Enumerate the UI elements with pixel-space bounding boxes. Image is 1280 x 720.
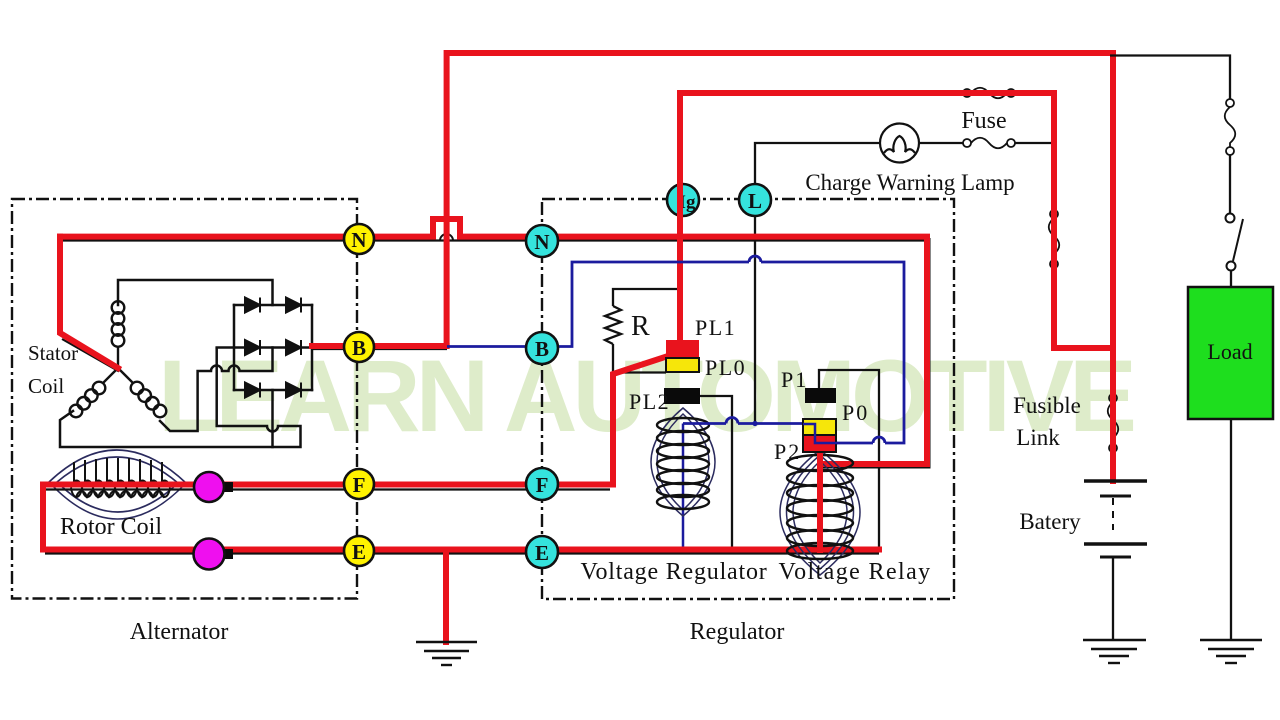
resistor R: [605, 306, 621, 344]
wire R resistor bottom to PL0: [613, 344, 666, 373]
svg-text:N: N: [534, 230, 549, 254]
diode D5: [245, 383, 260, 398]
wire stator phase3: [60, 349, 301, 448]
diode D1: [245, 298, 260, 313]
wire L terminal to lamp: [755, 143, 880, 185]
rotor comb ticks: [74, 458, 162, 482]
diode D2: [286, 298, 301, 313]
terminal F (alternator): [344, 469, 374, 499]
wire stator phase1 top: [118, 280, 273, 305]
regulator dashed box: [542, 199, 954, 599]
brush connector lower: [194, 539, 234, 570]
red ignition line: [680, 93, 1113, 348]
svg-text:PL0: PL0: [705, 355, 746, 380]
red into PL1: [677, 340, 683, 356]
fuse (lamp circuit): [963, 138, 1015, 149]
wire diode row1: [234, 304, 312, 307]
red relay vertical: [817, 452, 823, 550]
terminal E (regulator): [526, 536, 558, 568]
stator coil Y: [70, 301, 167, 417]
svg-text:B: B: [535, 337, 549, 361]
terminal Ig: [667, 184, 699, 216]
svg-text:PL2: PL2: [629, 389, 670, 414]
ground (load): [1200, 640, 1262, 663]
terminal N (regulator): [526, 225, 558, 257]
rotor loops: [71, 481, 170, 489]
diode D3: [245, 340, 260, 355]
svg-text:Load: Load: [1207, 339, 1252, 364]
wire top black to switch: [1110, 56, 1230, 100]
black wire under N line: [60, 239, 927, 241]
blue step inside P0/P2 block: [803, 424, 838, 443]
rectifier left rail: [233, 305, 236, 390]
blue wire L junction to P0 return: [761, 262, 904, 443]
svg-text:P0: P0: [842, 400, 869, 425]
red N line left leg + stator diagonal: [60, 237, 118, 368]
brush connector upper: [194, 472, 233, 502]
contact PL0: [666, 358, 699, 372]
terminal F (regulator): [526, 468, 558, 500]
svg-text:Voltage Relay: Voltage Relay: [778, 559, 931, 585]
blue regulator line: [683, 422, 726, 425]
load: [1188, 287, 1273, 419]
wire load to ground: [1230, 419, 1232, 640]
red top feed line: [447, 53, 1113, 481]
terminal B (regulator): [526, 332, 558, 364]
wire stator phase2: [160, 348, 273, 432]
charge warning lamp: [880, 124, 919, 163]
terminal N (alternator): [344, 224, 374, 254]
contact P0/P2 block: [803, 419, 836, 435]
blue hop over L wire: [749, 256, 761, 262]
black wire under relay feed: [820, 238, 930, 468]
svg-text:L: L: [748, 189, 762, 213]
black wire under E line: [45, 552, 879, 554]
svg-text:Rotor Coil: Rotor Coil: [60, 514, 162, 540]
junction dot L/blue: [752, 421, 757, 426]
blue B to junction: [447, 262, 749, 347]
svg-text:N: N: [351, 228, 366, 252]
switch: [1226, 214, 1244, 271]
wire L terminal down: [754, 216, 756, 424]
red PL1 drop to F line: [677, 340, 683, 352]
terminal B (alternator): [344, 332, 374, 362]
wire R resistor top: [613, 289, 680, 306]
fusible link 1 (behind red, x=1054): [1049, 210, 1060, 268]
diode D6: [286, 383, 301, 398]
red wire relay vertical over coil: [817, 452, 823, 550]
battery: [1084, 481, 1147, 640]
diode D4: [286, 340, 301, 355]
svg-text:Coil: Coil: [28, 374, 64, 398]
svg-text:F: F: [536, 473, 549, 497]
voltage regulator coil: [651, 408, 715, 516]
contact PL2: [664, 388, 700, 404]
black wire under B red segment: [312, 348, 447, 350]
terminal L: [739, 184, 771, 216]
red F line: [43, 485, 879, 550]
fusible link 2 (behind red, x=1113): [1108, 394, 1119, 452]
black hop under N/vertical crossing: [440, 234, 453, 241]
contact PL1: [666, 340, 699, 358]
wire row3 mid down: [271, 390, 274, 447]
svg-text:Regulator: Regulator: [690, 619, 785, 645]
svg-text:Alternator: Alternator: [130, 619, 229, 645]
svg-text:E: E: [352, 540, 366, 564]
red N line with hop: [60, 219, 927, 464]
alternator dashed box: [12, 199, 357, 599]
svg-text:Charge Warning Lamp: Charge Warning Lamp: [805, 170, 1014, 195]
fuse (load circuit): [1225, 99, 1236, 155]
fuse (ignition feed, behind red): [963, 88, 1015, 99]
black wire under F line: [45, 488, 610, 490]
svg-text:Link: Link: [1016, 425, 1060, 450]
svg-text:Batery: Batery: [1019, 509, 1081, 534]
wire PL2 to E rail: [700, 396, 732, 552]
terminal E (alternator): [344, 536, 374, 566]
svg-text:PL1: PL1: [695, 315, 736, 340]
svg-text:E: E: [535, 541, 549, 565]
wire fuse to switch: [1229, 155, 1231, 213]
contact P1: [805, 388, 836, 403]
svg-text:Voltage Regulator: Voltage Regulator: [580, 559, 767, 585]
svg-text:P2: P2: [774, 439, 801, 464]
red over Ig: [677, 181, 683, 219]
wire P1 to relay contact frame: [819, 370, 879, 552]
red ground stub: [443, 550, 449, 643]
svg-text:R: R: [631, 311, 650, 342]
svg-text:P1: P1: [781, 367, 808, 392]
voltage relay coil: [780, 450, 860, 575]
blue wire through regulator coil: [682, 424, 685, 551]
rectifier right rail: [311, 305, 314, 390]
svg-text:F: F: [353, 473, 366, 497]
wire diode row3: [234, 389, 312, 392]
red B output: [312, 343, 447, 349]
svg-text:Fusible: Fusible: [1013, 393, 1081, 418]
blue wire regulator coil to P0: [738, 422, 803, 425]
svg-text:Stator: Stator: [28, 341, 78, 365]
rotor coil: [49, 450, 186, 519]
ground (battery): [1083, 640, 1146, 663]
wire diode row2: [217, 346, 312, 349]
blue wire into P0 block: [836, 442, 873, 445]
black diagonal under stator red: [62, 339, 119, 372]
blue hop over relay frame wire: [873, 437, 885, 443]
wire lamp to fuse to battery line: [919, 142, 963, 144]
svg-text:Fuse: Fuse: [961, 108, 1006, 134]
wire switch to load: [1230, 270, 1232, 287]
svg-text:B: B: [352, 336, 366, 360]
ground (alternator E): [416, 642, 477, 665]
